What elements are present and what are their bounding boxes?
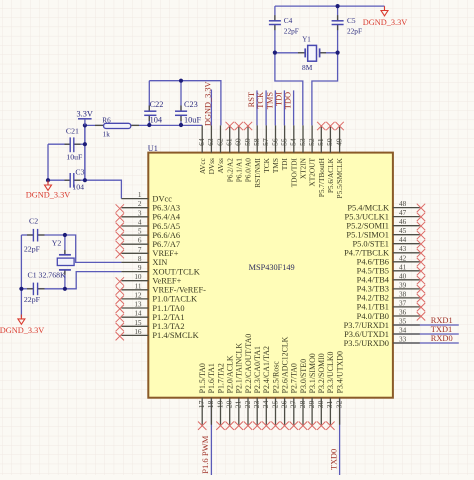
pin 9 XOUT/TCLK xyxy=(121,264,199,276)
svg-text:C5: C5 xyxy=(347,16,356,25)
junction node C23 bottom xyxy=(179,123,183,127)
svg-text:P5.2/SOMI1: P5.2/SOMI1 xyxy=(346,222,389,231)
capacitor C5 22pF xyxy=(337,15,339,20)
pin 59 P6.0/A0 xyxy=(243,122,253,182)
svg-text:22pF: 22pF xyxy=(24,244,41,253)
wire DVcc rail from 3.3V node through R6, C22, C23 to pin 64 xyxy=(85,124,202,126)
pin 58 RST/NMI xyxy=(252,125,262,187)
svg-text:47: 47 xyxy=(399,209,407,217)
pin 1 DVcc xyxy=(121,191,172,203)
svg-text:RST/NMI: RST/NMI xyxy=(253,158,262,188)
pin 31 P3.3/UCLK0 xyxy=(325,351,335,429)
svg-text:P6.3/A3: P6.3/A3 xyxy=(152,204,180,213)
svg-text:40: 40 xyxy=(399,272,407,280)
wire C22 bottom stem to DVcc rail xyxy=(148,116,150,126)
svg-text:22: 22 xyxy=(243,400,252,408)
ground DGND_3.3V bottom left below C1 xyxy=(18,315,25,325)
svg-text:C1 32.768K: C1 32.768K xyxy=(28,270,66,279)
capacitor C23 10uF xyxy=(180,106,182,111)
svg-text:P4.3/TB3: P4.3/TB3 xyxy=(357,285,389,294)
pin 34 P3.6/UTXD1 xyxy=(344,327,420,339)
pin 27 P2.7/TA0 xyxy=(289,363,299,430)
pin 7 VREF+ xyxy=(116,246,179,258)
svg-text:P3.7/URXD1: P3.7/URXD1 xyxy=(344,321,389,330)
svg-text:57: 57 xyxy=(261,138,270,146)
svg-text:P6.6/A6: P6.6/A6 xyxy=(152,231,180,240)
svg-text:48: 48 xyxy=(399,200,407,208)
svg-text:23: 23 xyxy=(252,400,261,408)
svg-text:TDO/TDI: TDO/TDI xyxy=(289,158,298,188)
pin 6 P6.7/A7 xyxy=(116,237,181,250)
svg-text:61: 61 xyxy=(225,138,234,146)
svg-text:44: 44 xyxy=(399,236,407,244)
svg-text:37: 37 xyxy=(399,299,407,307)
svg-text:62: 62 xyxy=(215,138,224,146)
svg-text:RXD1: RXD1 xyxy=(431,316,453,325)
svg-text:P2.5/Rosc: P2.5/Rosc xyxy=(271,361,280,394)
power 3.3V xyxy=(78,118,92,120)
svg-text:P4.1/TB1: P4.1/TB1 xyxy=(357,303,389,312)
svg-text:28: 28 xyxy=(298,400,307,408)
junction node C5 top xyxy=(336,4,340,8)
svg-text:P2.6/ADC12CLK: P2.6/ADC12CLK xyxy=(280,336,289,393)
ground DGND_3.3V below C3 xyxy=(45,181,52,191)
svg-text:TXD1: TXD1 xyxy=(431,325,452,334)
svg-text:60: 60 xyxy=(234,138,243,146)
svg-text:Y1: Y1 xyxy=(302,36,311,44)
pin 19 P1.7/TA2 xyxy=(215,363,225,430)
svg-text:22pF: 22pF xyxy=(347,27,362,36)
svg-text:P1.6/TA1: P1.6/TA1 xyxy=(207,363,216,393)
svg-text:3: 3 xyxy=(138,209,142,217)
op-amp U1 MSP430F149 body xyxy=(148,153,393,398)
svg-text:1: 1 xyxy=(138,191,142,199)
svg-text:26: 26 xyxy=(279,400,288,408)
junction node C1 left / ground xyxy=(19,287,23,291)
pin 4 P6.5/A5 xyxy=(116,219,181,232)
svg-text:46: 46 xyxy=(399,218,407,226)
wire C1 right plate to Y2 bottom node xyxy=(38,288,65,290)
pin 24 P2.4/CA1/TA2 xyxy=(261,346,271,430)
svg-text:7: 7 xyxy=(138,246,142,254)
pin 21 P2.1/TAINCLK xyxy=(234,343,244,430)
svg-text:P2.0/ACLK: P2.0/ACLK xyxy=(226,355,235,393)
svg-text:R6: R6 xyxy=(102,117,111,125)
svg-text:52: 52 xyxy=(307,138,316,146)
pin 51 P5.7/TBoutH xyxy=(316,122,326,197)
pin 36 P4.0/TB0 xyxy=(357,309,426,321)
capacitor C4 22pF xyxy=(274,15,276,20)
svg-text:35: 35 xyxy=(399,318,407,326)
wire node to pin 1 DVcc xyxy=(85,180,122,198)
svg-text:C2: C2 xyxy=(29,216,38,225)
svg-text:TMS: TMS xyxy=(265,92,274,110)
svg-text:VeREF+: VeREF+ xyxy=(152,277,181,286)
wire TDI stub on pin 55 xyxy=(283,90,285,125)
svg-text:Y2: Y2 xyxy=(52,239,62,248)
pin 15 P1.3/TA2 xyxy=(116,319,185,332)
svg-text:16: 16 xyxy=(134,328,142,336)
svg-text:XT2IN: XT2IN xyxy=(299,157,308,179)
pin 22 P2.2/CAOUT/TA0 xyxy=(243,334,253,430)
svg-text:51: 51 xyxy=(316,138,325,146)
svg-text:TCK: TCK xyxy=(256,92,265,109)
svg-text:6: 6 xyxy=(138,237,142,245)
svg-text:VREF+: VREF+ xyxy=(152,249,178,258)
svg-text:33: 33 xyxy=(399,336,407,344)
svg-text:45: 45 xyxy=(399,227,407,235)
svg-text:P4.6/TB6: P4.6/TB6 xyxy=(357,258,389,267)
svg-text:RXD0: RXD0 xyxy=(431,334,453,343)
pin 33 P3.5/URXD0 xyxy=(344,336,420,348)
pin 39 P4.3/TB3 xyxy=(357,281,426,293)
svg-text:36: 36 xyxy=(399,309,407,317)
svg-text:P1.7/TA2: P1.7/TA2 xyxy=(216,363,225,393)
svg-text:10uF: 10uF xyxy=(184,115,201,124)
svg-text:C3: C3 xyxy=(75,168,84,177)
pin 14 P1.2/TA1 xyxy=(116,310,185,323)
junction node Y1 left xyxy=(273,51,277,55)
pin 13 P1.1/TA0 xyxy=(116,301,185,314)
pin 61 P6.2/A2 xyxy=(225,122,235,182)
svg-text:P5.1/SIMO1: P5.1/SIMO1 xyxy=(346,231,389,240)
svg-text:XIN: XIN xyxy=(152,258,167,267)
svg-text:14: 14 xyxy=(134,310,142,318)
svg-text:P5.4/MCLK: P5.4/MCLK xyxy=(347,203,389,212)
wire crystal Y1 left rail xyxy=(275,52,304,54)
pin 2 P6.3/A3 xyxy=(116,200,181,213)
svg-text:P4.7/TBCLK: P4.7/TBCLK xyxy=(344,249,389,258)
pin 50 P5.6/ACLK xyxy=(325,122,335,193)
wire C5 top stem xyxy=(337,6,339,20)
junction node C21 right xyxy=(83,142,87,146)
svg-text:21: 21 xyxy=(234,400,243,408)
junction node Y2 bottom xyxy=(63,287,67,291)
wire TMS stub on pin 56 xyxy=(274,90,276,125)
svg-text:18: 18 xyxy=(206,400,215,408)
junction node C3 right xyxy=(83,178,87,182)
svg-text:P5.6/ACLK: P5.6/ACLK xyxy=(326,157,335,193)
pin 17 P1.5/TA0 xyxy=(197,363,207,430)
pin 40 P4.4/TB4 xyxy=(357,272,426,284)
pin 47 P5.3/UCLK1 xyxy=(345,209,426,221)
pin 48 P5.4/MCLK xyxy=(347,200,425,212)
junction node C23 top xyxy=(179,79,183,83)
wire C21 right plate to 3.3V branch xyxy=(74,143,85,145)
svg-text:15: 15 xyxy=(134,319,142,327)
pin 11 VREF-/VeREF- xyxy=(116,282,207,295)
svg-text:C22: C22 xyxy=(150,100,164,109)
pin 26 P2.6/ADC12CLK xyxy=(279,336,289,430)
svg-text:P5.0/STE1: P5.0/STE1 xyxy=(352,240,389,249)
wire XT2 top rail C4 to DGND xyxy=(275,5,385,7)
pin 23 P2.3/CA0/TA1 xyxy=(252,346,262,430)
wire pin 35 to RXD1 label xyxy=(393,324,459,326)
svg-text:1k: 1k xyxy=(103,130,111,138)
svg-text:P1.5/TA0: P1.5/TA0 xyxy=(198,363,207,393)
svg-text:19: 19 xyxy=(215,400,224,408)
wire C23 top stem xyxy=(180,81,182,111)
svg-text:P4.2/TB2: P4.2/TB2 xyxy=(357,294,389,303)
svg-text:P3.2/SOMI0: P3.2/SOMI0 xyxy=(317,353,326,393)
wire C2 left plate to left ground rail xyxy=(21,234,33,236)
wire pin 32 down to TXD0 xyxy=(339,398,341,475)
junction node C22 bottom xyxy=(147,123,151,127)
junction node C3 left / ground xyxy=(46,178,50,182)
wire C3 left plate xyxy=(48,179,70,181)
capacitor C3 104 xyxy=(65,179,71,181)
svg-text:TCK: TCK xyxy=(262,157,271,172)
svg-text:64: 64 xyxy=(197,138,206,146)
svg-text:P3.5/URXD0: P3.5/URXD0 xyxy=(344,339,389,348)
svg-text:P2.1/TAINCLK: P2.1/TAINCLK xyxy=(235,343,244,394)
pin 43 P4.7/TBCLK xyxy=(344,245,425,257)
crystal Y2 32.768K xyxy=(64,250,66,255)
wire pin 34 to TXD1 label xyxy=(393,333,459,335)
capacitor C1 22pF xyxy=(27,288,33,290)
svg-text:P2.7/TA0: P2.7/TA0 xyxy=(290,363,299,393)
wire crystal Y1 right rail xyxy=(320,52,338,54)
pin 8 XIN xyxy=(121,255,167,267)
svg-text:DGND_3.3V: DGND_3.3V xyxy=(203,81,212,125)
svg-text:P6.0/A0: P6.0/A0 xyxy=(244,158,253,182)
pin 44 P5.0/STE1 xyxy=(352,236,425,248)
svg-text:P1.1/TA0: P1.1/TA0 xyxy=(152,304,184,313)
pin 29 P3.1/SIMO0 xyxy=(307,353,317,430)
svg-text:AVss: AVss xyxy=(216,158,225,173)
pin 63 DVss xyxy=(206,125,216,174)
svg-text:XOUT/TCLK: XOUT/TCLK xyxy=(152,267,199,276)
wire RST stub on pin 58 xyxy=(256,90,258,125)
svg-text:104: 104 xyxy=(72,182,84,191)
junction node Y2 top xyxy=(63,233,67,237)
svg-text:P4.4/TB4: P4.4/TB4 xyxy=(357,276,390,285)
pin 45 P5.1/SIMO1 xyxy=(346,227,425,239)
capacitor C21 10uF xyxy=(65,143,71,145)
wire C4 bottom stem to crystal rail xyxy=(274,25,276,53)
svg-text:TDO: TDO xyxy=(284,92,293,109)
svg-text:32: 32 xyxy=(334,400,343,408)
wire C23 bottom stem to DVcc rail xyxy=(180,116,182,126)
pin 37 P4.1/TB1 xyxy=(357,299,426,311)
pin 28 P3.0/STE0 xyxy=(298,359,308,430)
junction node Y1 right xyxy=(336,51,340,55)
svg-text:P6.7/A7: P6.7/A7 xyxy=(152,240,180,249)
wire TDO stub on pin 54 xyxy=(293,90,295,125)
wire C1 left plate to ground rail xyxy=(21,288,33,290)
svg-text:59: 59 xyxy=(243,138,252,146)
svg-text:53: 53 xyxy=(298,138,307,146)
svg-text:39: 39 xyxy=(399,281,407,289)
svg-text:TDI: TDI xyxy=(280,158,289,171)
wire Y2 top node to pin 8 XIN xyxy=(65,235,122,262)
svg-text:29: 29 xyxy=(307,400,316,408)
svg-text:P2.2/CAOUT/TA0: P2.2/CAOUT/TA0 xyxy=(244,334,253,394)
svg-text:12: 12 xyxy=(134,291,142,299)
wire C5 bottom stem to crystal rail xyxy=(337,25,339,53)
svg-text:P3.4/UTXD0: P3.4/UTXD0 xyxy=(335,351,344,393)
svg-text:C4: C4 xyxy=(284,16,293,25)
svg-text:P3.6/UTXD1: P3.6/UTXD1 xyxy=(344,330,389,339)
svg-text:43: 43 xyxy=(399,245,407,253)
svg-text:8M: 8M xyxy=(302,63,313,72)
svg-text:41: 41 xyxy=(399,263,407,271)
svg-text:P2.3/CA0/TA1: P2.3/CA0/TA1 xyxy=(253,346,262,393)
svg-text:P3.0/STE0: P3.0/STE0 xyxy=(299,359,308,393)
svg-text:MSP430F149: MSP430F149 xyxy=(249,263,295,272)
pin 10 VeREF+ xyxy=(116,273,182,286)
svg-text:49: 49 xyxy=(334,138,343,146)
svg-text:DGND_3.3V: DGND_3.3V xyxy=(363,18,407,27)
pin 54 TDO/TDI xyxy=(289,125,299,187)
pin 64 AVcc xyxy=(197,125,207,174)
svg-text:P6.2/A2: P6.2/A2 xyxy=(225,158,234,182)
pin 52 XT2OUT xyxy=(307,125,317,186)
svg-text:38: 38 xyxy=(399,290,407,298)
pin 12 P1.0/TACLK xyxy=(116,291,198,304)
svg-text:AVcc: AVcc xyxy=(198,157,207,174)
svg-text:C23: C23 xyxy=(184,100,198,109)
pin 38 P4.2/TB2 xyxy=(357,290,426,302)
svg-text:P6.1/A1: P6.1/A1 xyxy=(234,158,243,182)
pin 18 P1.6/TA1 xyxy=(206,363,216,425)
svg-text:34: 34 xyxy=(399,327,407,335)
pin 62 AVss xyxy=(215,125,225,173)
wire pin 18 down to P1.6 PWM xyxy=(210,398,212,475)
svg-text:RST: RST xyxy=(247,92,256,107)
pin 49 P5.5/SMCLK xyxy=(334,122,344,199)
pin 35 P3.7/URXD1 xyxy=(344,318,420,330)
svg-text:42: 42 xyxy=(399,254,407,262)
wire crystal left node down to pin 53 XT2IN xyxy=(275,53,303,126)
svg-text:56: 56 xyxy=(270,138,279,146)
svg-text:P5.7/TBoutH: P5.7/TBoutH xyxy=(317,157,326,197)
pin 42 P4.6/TB6 xyxy=(357,254,426,266)
wire C22 top stem xyxy=(148,81,150,111)
pin 46 P5.2/SOMI1 xyxy=(346,218,425,230)
pin 53 XT2IN xyxy=(298,125,308,179)
wire C4 top stem xyxy=(274,6,276,20)
svg-text:P3.3/UCLK0: P3.3/UCLK0 xyxy=(326,351,335,393)
svg-text:P5.5/SMCLK: P5.5/SMCLK xyxy=(335,157,344,198)
svg-text:P5.3/UCLK1: P5.3/UCLK1 xyxy=(345,212,389,221)
wire 3.3V vertical branch down to C21/C3 node xyxy=(84,125,86,180)
wire C21 left plate to ground branch xyxy=(48,143,70,145)
pin 20 P2.0/ACLK xyxy=(225,355,235,430)
svg-text:P1.6 PWM: P1.6 PWM xyxy=(200,435,210,474)
svg-text:DVss: DVss xyxy=(207,158,216,174)
svg-text:22pF: 22pF xyxy=(284,27,299,36)
svg-text:P1.2/TA1: P1.2/TA1 xyxy=(152,313,184,322)
svg-text:9: 9 xyxy=(138,264,142,272)
svg-text:10: 10 xyxy=(134,273,142,281)
wire TCK stub on pin 57 xyxy=(265,90,267,125)
svg-text:XT2OUT: XT2OUT xyxy=(308,158,317,187)
wire DGND_3.3V stub on pin 63 DVss xyxy=(210,90,212,126)
svg-text:50: 50 xyxy=(325,138,334,146)
svg-text:11: 11 xyxy=(135,282,142,290)
svg-text:27: 27 xyxy=(289,400,298,408)
ground DGND_3.3V top right xyxy=(381,6,388,16)
svg-text:30: 30 xyxy=(316,400,325,408)
crystal Y1 8M xyxy=(298,52,305,54)
pin 56 TMS xyxy=(270,125,280,173)
svg-text:P1.4/SMCLK: P1.4/SMCLK xyxy=(152,331,198,340)
svg-text:VREF-/VeREF-: VREF-/VeREF- xyxy=(152,286,206,295)
svg-text:13: 13 xyxy=(134,301,142,309)
wire pin 33 to RXD0 label xyxy=(393,342,459,344)
wire Y2 top stem xyxy=(64,235,66,255)
wire Y2 bottom stem xyxy=(64,270,66,289)
wire pin 9 XOUT to Y2 bottom node xyxy=(65,272,122,289)
svg-text:20: 20 xyxy=(225,400,234,408)
svg-text:63: 63 xyxy=(206,138,215,146)
svg-text:58: 58 xyxy=(252,138,261,146)
svg-text:C21: C21 xyxy=(66,127,79,136)
pin 25 P2.5/Rosc xyxy=(270,361,280,430)
wire C2 right plate to Y2 top node xyxy=(38,234,65,236)
pin 5 P6.6/A6 xyxy=(116,228,181,241)
resistor R6 1k xyxy=(95,124,103,126)
svg-text:5: 5 xyxy=(138,228,142,236)
pin 60 P6.1/A1 xyxy=(234,122,244,182)
svg-text:P3.1/SIMO0: P3.1/SIMO0 xyxy=(308,353,317,393)
svg-text:22pF: 22pF xyxy=(24,295,41,304)
pin 32 P3.4/UTXD0 xyxy=(334,351,344,425)
svg-text:31: 31 xyxy=(325,400,334,408)
svg-text:10uF: 10uF xyxy=(66,153,83,162)
pin 41 P4.5/TB5 xyxy=(357,263,426,275)
capacitor C22 104 xyxy=(148,106,150,111)
svg-text:55: 55 xyxy=(279,138,288,146)
svg-text:DGND_3.3V: DGND_3.3V xyxy=(0,326,44,335)
svg-text:P4.0/TB0: P4.0/TB0 xyxy=(357,312,389,321)
svg-text:17: 17 xyxy=(197,400,206,408)
svg-text:P1.3/TA2: P1.3/TA2 xyxy=(152,322,184,331)
svg-text:P6.5/A5: P6.5/A5 xyxy=(152,222,180,231)
svg-text:DGND_3.3V: DGND_3.3V xyxy=(26,191,70,200)
svg-text:2: 2 xyxy=(138,200,142,208)
svg-text:54: 54 xyxy=(289,138,298,146)
svg-text:8: 8 xyxy=(138,255,142,263)
svg-text:24: 24 xyxy=(261,400,270,408)
pin 3 P6.4/A4 xyxy=(116,209,181,222)
pin 30 P3.2/SOMI0 xyxy=(316,353,326,430)
svg-text:TXD0: TXD0 xyxy=(329,449,338,470)
wire left ground branch vertical xyxy=(47,144,49,183)
svg-text:104: 104 xyxy=(150,115,163,124)
pin 16 P1.4/SMCLK xyxy=(116,328,199,341)
svg-text:U1: U1 xyxy=(148,144,158,153)
wire crystal right node down to pin 52 XT2OUT xyxy=(312,53,338,126)
svg-text:P4.5/TB5: P4.5/TB5 xyxy=(357,267,389,276)
svg-text:P6.4/A4: P6.4/A4 xyxy=(152,213,181,222)
svg-text:P2.4/CA1/TA2: P2.4/CA1/TA2 xyxy=(262,346,271,393)
wire C3 right plate to 3.3V branch xyxy=(74,179,85,181)
svg-text:4: 4 xyxy=(138,219,142,227)
svg-text:P1.0/TACLK: P1.0/TACLK xyxy=(152,295,197,304)
svg-text:TDI: TDI xyxy=(274,92,283,106)
wire left ground rail (C2/C1/DGND) xyxy=(20,235,22,318)
capacitor C2 22pF xyxy=(27,234,33,236)
pin 57 TCK xyxy=(261,125,271,172)
pin 55 TDI xyxy=(279,125,289,170)
svg-text:DVcc: DVcc xyxy=(152,194,172,203)
svg-text:25: 25 xyxy=(270,400,279,408)
junction node 3.3V/R6 xyxy=(83,123,87,127)
svg-text:TMS: TMS xyxy=(271,158,280,173)
svg-text:3.3V: 3.3V xyxy=(77,110,93,119)
